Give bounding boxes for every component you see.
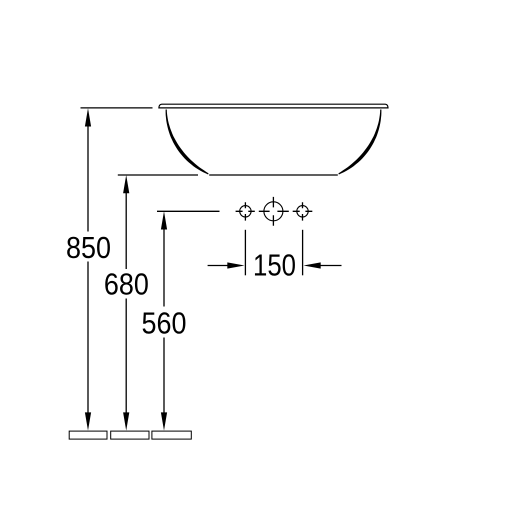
- arrowhead down 680: [123, 412, 129, 430]
- dimension line 150 left segment: [208, 265, 228, 267]
- extension line at bowl bottom level (680 reference): [118, 174, 198, 176]
- floor hatch rectangle 2: [111, 431, 149, 439]
- extension line at tap hole level (560 reference): [157, 210, 220, 212]
- extension line at rim level (850 reference): [81, 107, 153, 109]
- tap hole right crosshair: [293, 202, 313, 220]
- dimension line 680 (vertical): [125, 193, 127, 413]
- floor hatch rectangle 1: [69, 431, 107, 439]
- tap hole centre circle: [264, 202, 283, 221]
- dimension line 850 (vertical): [87, 126, 89, 413]
- arrowhead down 560: [161, 412, 167, 430]
- arrowhead left-pointing 150: [304, 262, 321, 268]
- svg-text:680: 680: [104, 267, 149, 302]
- svg-text:560: 560: [142, 305, 187, 340]
- extension line below left tap hole (150 dimension): [244, 230, 246, 275]
- bowl bottom line: [209, 174, 338, 176]
- tap hole left crosshair: [236, 202, 255, 220]
- arrowhead right-pointing 150: [227, 262, 244, 268]
- dimension line 150 right segment: [320, 265, 342, 267]
- extension line below right tap hole (150 dimension): [302, 230, 304, 275]
- floor hatch rectangle 3: [152, 431, 191, 439]
- svg-text:850: 850: [66, 230, 111, 265]
- tap hole left circle: [240, 206, 251, 217]
- dimension line 560 (vertical): [163, 230, 165, 414]
- bowl right thick arc (tapered crescent): [338, 110, 381, 175]
- svg-text:150: 150: [253, 248, 296, 283]
- tap hole centre crosshair: [259, 197, 289, 226]
- arrowhead down 850: [85, 412, 91, 430]
- arrowhead up 850: [85, 108, 91, 126]
- arrowhead up 680: [123, 175, 129, 193]
- arrowhead up 560: [161, 211, 167, 229]
- basin rim (top edge of washbasin, thin outlined slab): [159, 104, 388, 108]
- bowl left thick arc (tapered crescent): [166, 110, 209, 175]
- tap hole right circle: [297, 206, 308, 217]
